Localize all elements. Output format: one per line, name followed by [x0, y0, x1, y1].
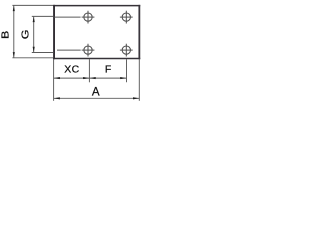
- svg-text:B: B: [1, 31, 12, 39]
- centerline to hole row 2: [57, 49, 81, 51]
- part outline rectangle: [53, 5, 140, 59]
- centerline to hole row 1: [54, 17, 80, 50]
- arrow B bottom: [13, 52, 15, 57]
- extension lines left side: [12, 5, 53, 57]
- ext line G bottom: [32, 52, 53, 54]
- arrow XC left: [54, 77, 60, 79]
- hole H3 bottom-left: [82, 44, 95, 57]
- ext line G top: [32, 15, 53, 17]
- dimension G line: [33, 16, 35, 52]
- ext line top (B): [12, 4, 53, 6]
- dimension line A: [54, 97, 140, 99]
- hole H4 bottom-right: [120, 44, 133, 57]
- arrow G top: [33, 17, 35, 22]
- arrow A left: [54, 97, 60, 99]
- hole H2 top-right: [120, 11, 133, 24]
- ext line right edge down: [138, 59, 140, 101]
- arrow A right: [133, 97, 139, 99]
- arrow G bottom: [33, 47, 35, 52]
- dimension line XC + F: [54, 77, 127, 79]
- arrow F right: [120, 77, 126, 79]
- arrow B top: [13, 6, 15, 11]
- ext line hole col1 down: [88, 59, 90, 82]
- arrow XC right: [83, 77, 89, 79]
- dimension B line: [13, 5, 15, 57]
- svg-text:G: G: [21, 30, 32, 40]
- extension lines below: [54, 59, 140, 101]
- svg-text:F: F: [105, 64, 111, 76]
- hole H1 top-left: [82, 11, 95, 24]
- ext line hole col2 down: [126, 59, 128, 82]
- svg-text:A: A: [92, 86, 100, 99]
- ext line left edge down: [53, 59, 55, 101]
- ext line bottom (B): [12, 57, 53, 59]
- svg-text:XC: XC: [64, 64, 79, 76]
- arrow F left: [90, 77, 96, 79]
